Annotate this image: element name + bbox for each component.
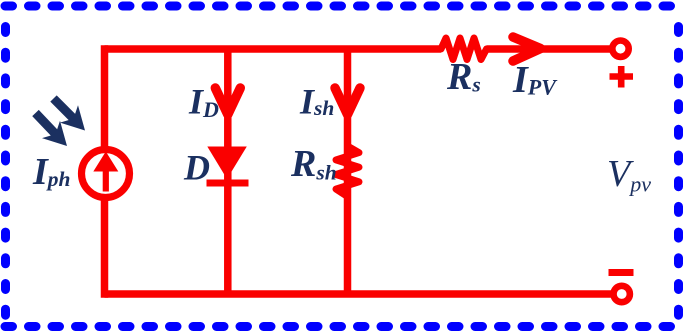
wire top rail <box>105 45 442 53</box>
svg-text:Rsh: Rsh <box>290 143 337 185</box>
diode D cathode bar <box>207 180 249 187</box>
resistor Rsh <box>336 146 359 197</box>
terminal positive node <box>612 41 628 57</box>
terminal negative node <box>614 286 630 302</box>
minus sign <box>609 269 634 276</box>
svg-text:Vpv: Vpv <box>607 153 651 197</box>
plus sign <box>610 66 634 88</box>
current source Iph <box>82 150 130 198</box>
wire left rail <box>101 45 109 297</box>
current arrow Ish <box>335 88 360 115</box>
diode D triangle <box>207 147 247 180</box>
svg-text:Rs: Rs <box>446 56 481 98</box>
wire shunt branch <box>344 49 352 294</box>
photon arrow lower <box>36 113 57 135</box>
svg-text:D: D <box>183 148 210 188</box>
current arrow ID <box>215 88 240 115</box>
svg-text:IPV: IPV <box>512 59 558 101</box>
current source Iph arrow <box>103 168 109 192</box>
wire top rail right <box>487 45 612 53</box>
resistor Rs <box>441 38 487 60</box>
wire bottom rail <box>105 290 613 298</box>
photon arrow upper <box>54 99 75 120</box>
svg-text:Iph: Iph <box>32 151 71 193</box>
current arrow IPV <box>513 37 541 61</box>
wire diode branch <box>224 49 232 294</box>
svg-text:Ish: Ish <box>299 82 334 122</box>
